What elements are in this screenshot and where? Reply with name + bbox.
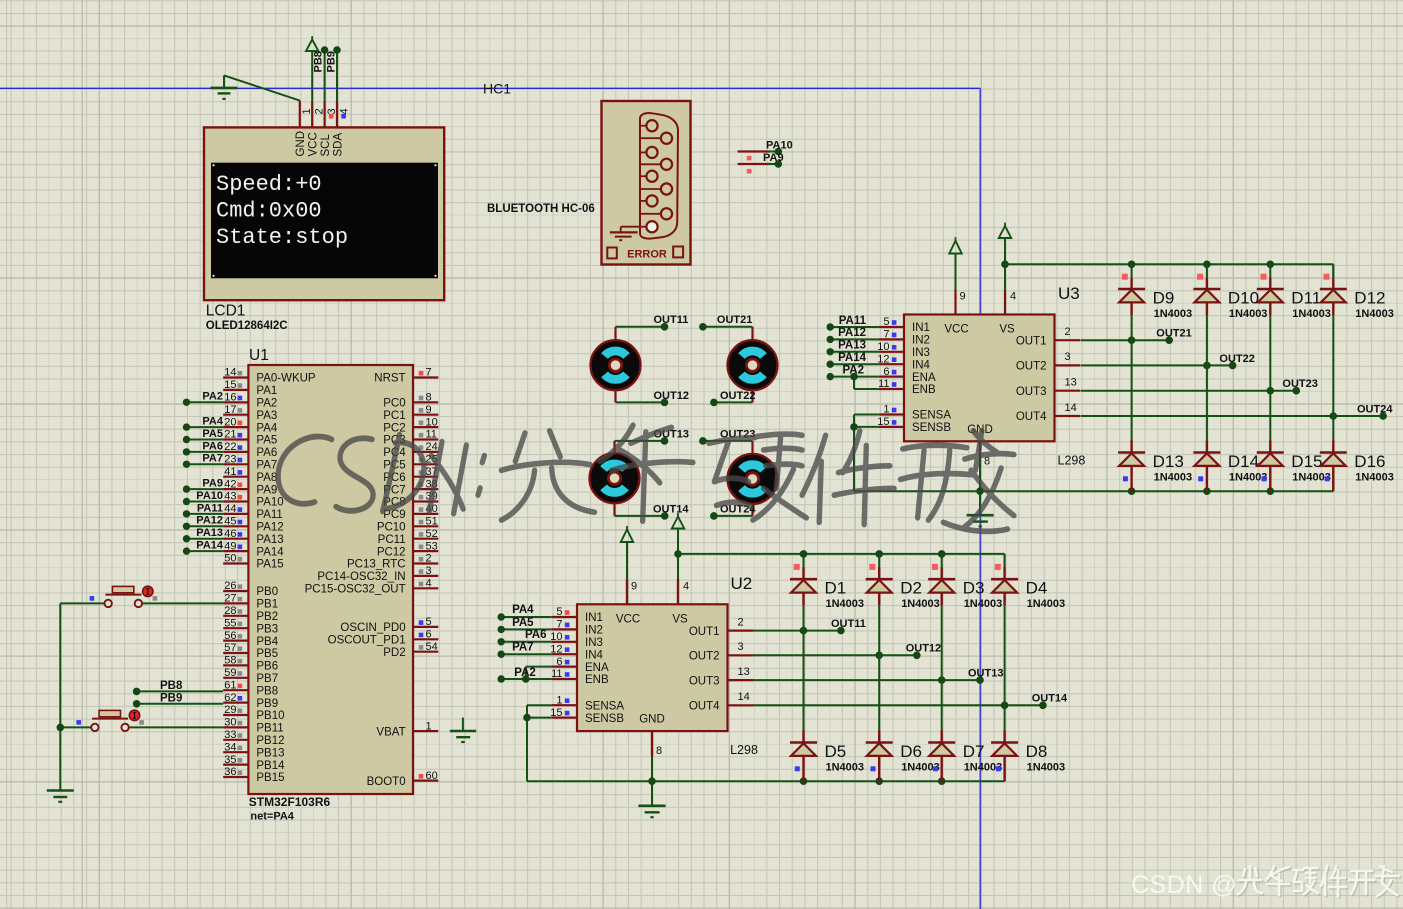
svg-text:D8: D8 — [1026, 742, 1048, 761]
node OUT21 dot (motor side) — [699, 323, 707, 331]
diode D15 — [1257, 440, 1284, 491]
label D1 — [825, 579, 847, 598]
svg-text:1N4003: 1N4003 — [1027, 598, 1066, 610]
svg-text:D11: D11 — [1291, 289, 1321, 308]
svg-text:PA12: PA12 — [838, 327, 866, 339]
wire diode column D3/D7 — [941, 554, 943, 730]
value label 1N4003 (D6) — [901, 762, 940, 774]
label net=PA4 — [250, 811, 294, 823]
svg-text:PB0: PB0 — [256, 586, 278, 598]
svg-text:3: 3 — [426, 565, 432, 577]
U1 pin 16 (PA2) — [223, 392, 277, 410]
value label 1N4003 (D2) — [901, 598, 940, 610]
svg-text:57: 57 — [224, 642, 236, 654]
wire SENSB down to GND rail (U2) — [527, 718, 552, 782]
label D9 — [1153, 289, 1175, 308]
svg-text:PC11: PC11 — [378, 534, 406, 546]
label LCD1 — [206, 303, 246, 320]
label PA6 (U2) — [525, 629, 547, 641]
svg-text:20: 20 — [224, 416, 236, 428]
LCD1 pin names GND VCC SCL SDA (vertical) — [295, 131, 344, 157]
svg-text:OUT2: OUT2 — [1016, 361, 1047, 373]
label OUT22 (diode side) — [1219, 353, 1254, 365]
svg-text:2: 2 — [314, 108, 326, 114]
U1 pin 25 (PC5) — [383, 454, 438, 472]
svg-text:D16: D16 — [1354, 452, 1385, 471]
svg-text:10: 10 — [426, 416, 438, 428]
svg-text:D2: D2 — [900, 579, 922, 598]
power symbol +V (U2 VCC) — [621, 526, 633, 579]
svg-text:59: 59 — [224, 667, 236, 679]
svg-text:PA2: PA2 — [256, 398, 277, 410]
svg-text:OSCIN_PD0: OSCIN_PD0 — [340, 622, 405, 634]
node junction OUT13/diode column — [938, 676, 946, 684]
svg-text:1N4003: 1N4003 — [1154, 472, 1193, 484]
U3 pin 13 (OUT3) — [1016, 377, 1080, 398]
pin state square (button1 left, blue) — [90, 596, 95, 601]
U1 pin 36 (PB15) — [223, 766, 284, 784]
svg-text:52: 52 — [426, 528, 438, 540]
svg-text:41: 41 — [224, 466, 236, 478]
svg-text:D6: D6 — [900, 742, 922, 761]
node junction rail/D column x=1270.3 — [1267, 261, 1275, 269]
U3 pin 11 (ENB) — [878, 378, 936, 396]
U1 pin 26 (PB0) — [223, 580, 278, 598]
U2 pin 15 (SENSB) — [550, 707, 624, 725]
node PA5 dot (U2) — [498, 626, 505, 633]
node OUT22 dot (motor side) — [710, 399, 718, 407]
label PA10 — [766, 140, 793, 152]
U1 pin 40 (PC9) — [383, 503, 438, 521]
label D3 — [963, 579, 985, 598]
diode D12 — [1320, 278, 1347, 316]
label PA12 (U3) — [838, 327, 866, 339]
value label 1N4003 (D11) — [1292, 308, 1331, 320]
label PA6 — [202, 440, 223, 452]
U2 body (L298) — [577, 604, 728, 731]
U1 pin 54 (PD2) — [383, 641, 438, 659]
motor M2 — [728, 340, 778, 390]
wire PA6 (U2) — [501, 641, 552, 643]
svg-text:D10: D10 — [1228, 289, 1259, 308]
pin state square (D2) — [869, 564, 875, 570]
svg-text:PA2: PA2 — [842, 364, 864, 376]
node junction SENSB (U2) — [523, 714, 531, 722]
wire OUT24 (U3 to terminal) — [1081, 415, 1383, 417]
U1 pin 6 (OSCOUT_PD1) — [328, 629, 439, 647]
U3 pin 8 (GND) — [967, 424, 993, 468]
U1 pin 62 (PB9) — [223, 692, 278, 710]
node PA6 dot (U2) — [498, 638, 505, 645]
wire PA7 (U2) — [501, 653, 552, 655]
svg-text:PA14: PA14 — [838, 352, 867, 364]
U1 pin 55 (PB3) — [223, 617, 278, 635]
node PA2 dot (U3) — [827, 373, 834, 380]
diode D7 — [928, 730, 955, 781]
U2 pin 3 (OUT2) — [689, 641, 753, 662]
svg-text:VS: VS — [672, 613, 688, 625]
U1 pin 22 (PA6) — [223, 441, 277, 459]
node junction gnd rail/D column x=1270.3 — [1267, 487, 1275, 495]
node OUT24 dot (motor side) — [710, 512, 718, 520]
svg-text:L298: L298 — [730, 743, 758, 757]
wire PA5 (U1 left) — [187, 439, 224, 441]
sheet border (blue) horizontal — [0, 87, 980, 89]
watermark (bottom right, CSDN @) — [1131, 866, 1400, 899]
label PA11 (U3) — [839, 315, 867, 327]
svg-text:PA5: PA5 — [512, 617, 534, 629]
node PA7 dot (U2) — [498, 651, 505, 658]
node PB8 dot — [133, 688, 141, 696]
svg-text:U3: U3 — [1058, 284, 1080, 303]
svg-text:PC13_RTC: PC13_RTC — [347, 559, 406, 571]
svg-text:PA7: PA7 — [256, 460, 277, 472]
svg-text:PC15-OSC32_OUT: PC15-OSC32_OUT — [305, 584, 406, 596]
LCD1 pin stubs 1-4 — [300, 101, 337, 128]
svg-text:NRST: NRST — [374, 373, 405, 385]
U3 pin 2 (OUT1) — [1016, 326, 1080, 347]
U1 pin 37 (PC6) — [383, 466, 438, 484]
wire OUT22 (motor2 bottom) — [714, 390, 753, 402]
svg-text:1N4003: 1N4003 — [826, 762, 865, 774]
svg-text:OUT23: OUT23 — [1282, 378, 1317, 390]
wire PA2 branch to ENA (U2) — [526, 667, 552, 679]
label PA9 — [763, 152, 784, 164]
svg-text:1N4003: 1N4003 — [964, 598, 1003, 610]
wire OUT13 (U2 to terminal) — [753, 679, 980, 681]
diode D5 — [790, 730, 817, 781]
wire OUT23 (U3 to terminal) — [1081, 390, 1297, 392]
svg-text:PB1: PB1 — [256, 599, 278, 611]
diode D1 — [790, 567, 817, 606]
U3 pin 9 (VCC) — [944, 289, 968, 335]
svg-text:OUT3: OUT3 — [1016, 386, 1047, 398]
LCD1 pin numbers 1 2 3 4 — [301, 108, 350, 114]
svg-text:58: 58 — [224, 655, 236, 667]
svg-text:23: 23 — [224, 454, 236, 466]
svg-text:OUT11: OUT11 — [831, 618, 866, 630]
label D6 — [900, 742, 922, 761]
U2 pin 1 (SENSA) — [552, 694, 625, 712]
power symbol +V on LCD VCC pin — [306, 36, 318, 101]
U1 pin 15 (PA1) — [223, 379, 277, 397]
pin state square (D5) — [795, 766, 800, 771]
HC-06 indicator square left — [607, 248, 617, 259]
svg-text:L298: L298 — [1058, 454, 1086, 468]
label D8 — [1026, 742, 1048, 761]
wire VS rail (U3 to D9-D12 cathodes) — [1005, 264, 1333, 277]
svg-text:D13: D13 — [1153, 452, 1184, 471]
node PA12 dot (U3) — [827, 336, 834, 343]
svg-text:PB2: PB2 — [256, 611, 278, 623]
pin state square (D11) — [1261, 274, 1267, 280]
U1 pin 9 (PC1) — [383, 404, 438, 422]
diode D4 — [991, 567, 1018, 606]
value label L298 (U2) — [730, 743, 758, 757]
U1 pin 33 (PB12) — [223, 729, 284, 747]
svg-text:16: 16 — [224, 392, 236, 404]
svg-text:PB5: PB5 — [256, 648, 278, 660]
U1 pin 4 (PC15-OSC32_OUT) — [305, 578, 439, 596]
svg-text:IN2: IN2 — [585, 625, 603, 637]
U1 pin 46 (PA13) — [223, 528, 283, 546]
node junction U3 GND / rail — [976, 487, 984, 495]
svg-text:PA12: PA12 — [196, 515, 223, 527]
svg-text:SCL: SCL — [320, 134, 332, 157]
svg-text:SDA: SDA — [332, 133, 344, 157]
svg-text:D3: D3 — [963, 579, 985, 598]
svg-text:PA9: PA9 — [763, 152, 784, 164]
U1 pin 3 (PC14-OSC32_IN) — [317, 565, 438, 583]
svg-text:13: 13 — [1065, 377, 1077, 389]
svg-text:PB7: PB7 — [256, 673, 278, 685]
wire diode column D10/D14 — [1206, 264, 1208, 440]
wire OUT23 (motor4 top) — [703, 441, 753, 454]
svg-text:PA7: PA7 — [202, 453, 223, 465]
svg-text:15: 15 — [550, 707, 562, 719]
label OUT12 (diode side) — [906, 643, 941, 655]
node junction OUT14/diode column — [1001, 702, 1009, 710]
svg-text:45: 45 — [224, 516, 236, 528]
label PA12 — [196, 515, 223, 527]
U1 pin 7 (NRST) — [374, 367, 438, 385]
value label 1N4003 (D4) — [1027, 598, 1066, 610]
wire PA13 (U1 left) — [187, 538, 224, 540]
U3 pin 10 (IN3) — [877, 341, 930, 359]
pin state square (button2 right, gray) — [139, 720, 144, 725]
svg-text:PA11: PA11 — [197, 502, 223, 514]
svg-text:11: 11 — [878, 378, 889, 390]
svg-text:ENA: ENA — [912, 372, 936, 384]
pin state square (D13) — [1123, 476, 1128, 481]
svg-text:15: 15 — [224, 379, 236, 391]
svg-text:PB9: PB9 — [160, 693, 182, 705]
label PA2 (U3) — [842, 364, 864, 376]
diode D9 — [1118, 278, 1145, 316]
U1 pin 1 (VBAT) — [376, 720, 438, 738]
svg-text:OUT4: OUT4 — [689, 701, 720, 713]
U2 pin 6 (ENA) — [552, 656, 609, 674]
wire PA11 (U1 left) — [187, 513, 224, 515]
pin state square (button2 left, blue) — [76, 720, 81, 725]
svg-text:Speed:+0: Speed:+0 — [216, 172, 322, 197]
svg-text:PA13: PA13 — [256, 534, 283, 546]
label PA2 (U2) — [514, 667, 536, 679]
wire PB8 (LCD SCL) — [324, 50, 326, 101]
svg-text:8: 8 — [656, 745, 662, 757]
wire diode column D1/D5 — [803, 554, 805, 730]
wire PA2 branch to ENB (U3) — [854, 377, 879, 389]
label D10 — [1228, 289, 1259, 308]
label PA14 — [196, 540, 224, 552]
svg-text:IN3: IN3 — [585, 637, 603, 649]
svg-text:1N4003: 1N4003 — [1154, 308, 1193, 320]
pin state square (SCL, red) — [329, 114, 334, 119]
wire GND rail (bottom, U2 bank) — [527, 756, 1005, 781]
U3 pin 12 (IN4) — [877, 353, 930, 371]
pin state square (button1 right, gray) — [153, 596, 158, 601]
svg-text:7: 7 — [556, 619, 562, 631]
svg-text:5: 5 — [426, 616, 432, 628]
svg-text:D1: D1 — [825, 579, 847, 598]
node PA9 dot — [775, 160, 783, 168]
svg-text:D7: D7 — [963, 742, 985, 761]
svg-text:SENSA: SENSA — [912, 410, 951, 422]
svg-text:PB11: PB11 — [256, 723, 283, 735]
U1 pin 30 (PB11) — [223, 717, 283, 735]
wire PA6 (U1 left) — [187, 451, 224, 453]
node junction U2 GND / rail — [648, 777, 656, 785]
svg-text:PA10: PA10 — [256, 497, 283, 509]
svg-text:12: 12 — [550, 643, 562, 655]
svg-text:LCD1: LCD1 — [206, 303, 246, 320]
svg-text:21: 21 — [224, 429, 236, 441]
svg-text:D9: D9 — [1153, 289, 1175, 308]
U1 pin 2 (PC13_RTC) — [347, 553, 438, 571]
wire PA10 (U1 left) — [187, 501, 224, 503]
U1 pin 45 (PA12) — [223, 516, 283, 534]
svg-text:PA5: PA5 — [256, 435, 277, 447]
svg-text:U1: U1 — [249, 347, 269, 364]
svg-text:1N4003: 1N4003 — [1229, 308, 1268, 320]
node OUT12 terminal dot — [913, 652, 921, 660]
value label 1N4003 (D3) — [964, 598, 1003, 610]
svg-text:SENSB: SENSB — [585, 713, 624, 725]
svg-text:55: 55 — [224, 617, 236, 629]
svg-text:OUT24: OUT24 — [1357, 403, 1393, 415]
node junction rail/D column x=879.2 — [875, 550, 883, 558]
label PA10 — [196, 490, 223, 502]
wire PA14 (U1 left) — [187, 550, 224, 552]
svg-text:13: 13 — [738, 666, 750, 678]
value label 1N4003 (D10) — [1229, 308, 1268, 320]
label PA5 — [202, 428, 223, 440]
svg-text:34: 34 — [224, 741, 236, 753]
svg-text:14: 14 — [738, 691, 750, 703]
svg-text:GND: GND — [295, 131, 307, 157]
U1 pin 34 (PB13) — [223, 741, 284, 759]
wire diode column D4/D8 — [1004, 554, 1006, 730]
svg-text:4: 4 — [338, 108, 350, 114]
node junction gnd rail/D column x=879.2 — [875, 777, 883, 785]
node OUT13 dot (motor side) — [661, 437, 669, 445]
U2 pin 5 (IN1) — [552, 606, 603, 624]
diode D11 — [1257, 278, 1284, 316]
node PA6 dot — [183, 448, 190, 455]
wire diode column D12/D16 — [1332, 264, 1334, 440]
DB9 pin 5 circle (white) — [646, 221, 657, 232]
node OUT21 terminal dot — [1165, 336, 1173, 344]
svg-text:42: 42 — [224, 478, 236, 490]
U1 pin 35 (PB14) — [223, 754, 285, 772]
svg-text:9: 9 — [960, 291, 966, 303]
wire (button 1 left) — [60, 602, 104, 604]
svg-text:PA1: PA1 — [256, 385, 277, 397]
wire PA14 (U3) — [830, 363, 879, 365]
svg-text:15: 15 — [877, 416, 889, 428]
svg-text:OUT21: OUT21 — [717, 314, 752, 326]
label PA2 — [202, 391, 223, 403]
svg-text:D4: D4 — [1026, 579, 1048, 598]
U1 pin 5 (OSCIN_PD0) — [340, 616, 438, 634]
label PA4 (U2) — [512, 604, 534, 616]
wire PA9 terminal — [738, 163, 779, 165]
node junction VS rail (U3) — [1001, 261, 1009, 269]
svg-text:2: 2 — [738, 616, 744, 628]
svg-text:5: 5 — [556, 606, 562, 618]
svg-text:PB8: PB8 — [256, 685, 278, 697]
node OUT13 terminal dot — [976, 676, 984, 684]
U3 pin 1 (SENSA) — [879, 404, 952, 422]
node PA11 dot (U3) — [827, 323, 834, 330]
label PA13 — [196, 527, 223, 539]
ground (LCD GND pin) — [211, 75, 238, 99]
node OUT23 terminal dot — [1293, 387, 1301, 395]
node junction PA2/ENB (U3) — [850, 373, 858, 381]
svg-text:PA10: PA10 — [196, 490, 223, 502]
node OUT24 terminal dot — [1379, 412, 1387, 420]
svg-text:PB10: PB10 — [256, 710, 284, 722]
svg-text:PA6: PA6 — [256, 447, 277, 459]
U3 pin 15 (SENSB) — [877, 416, 951, 434]
label PA11 — [197, 502, 223, 514]
push button (bottom, to PB11) — [91, 710, 139, 731]
ground (VBAT) — [450, 718, 476, 742]
svg-text:PB8: PB8 — [160, 680, 183, 692]
node junction rail/D column x=1206.9 — [1203, 261, 1211, 269]
svg-text:IN2: IN2 — [912, 335, 930, 347]
node PA14 dot (U3) — [827, 361, 834, 368]
node PA4 dot (U2) — [498, 613, 505, 620]
svg-text:PC2: PC2 — [383, 422, 405, 434]
svg-text:GND: GND — [639, 714, 665, 726]
label PA5 (U2) — [512, 617, 534, 629]
svg-text:PC6: PC6 — [383, 472, 405, 484]
svg-text:12: 12 — [877, 353, 889, 365]
value label 1N4003 (D14) — [1229, 472, 1268, 484]
wire U2 VS stub ext — [677, 579, 679, 604]
svg-text:24: 24 — [426, 441, 438, 453]
U1 pin 58 (PB6) — [223, 655, 278, 673]
svg-text:Cmd:0x00: Cmd:0x00 — [216, 199, 322, 224]
wire SENSA to SENSB (U3) — [854, 415, 879, 427]
U1 pin 27 (PB1) — [223, 593, 278, 611]
value label 1N4003 (D5) — [826, 762, 865, 774]
U1 pin 59 (PB7) — [223, 667, 278, 685]
svg-text:PA2: PA2 — [514, 667, 536, 679]
wire VS rail (U2 to D1-D4 cathodes) — [678, 554, 1005, 567]
label OUT13 (diode side) — [968, 668, 1003, 680]
svg-text:6: 6 — [426, 629, 432, 641]
svg-text:ENB: ENB — [912, 384, 936, 396]
node PA2 dot — [183, 399, 190, 406]
svg-text:35: 35 — [224, 754, 236, 766]
svg-text:28: 28 — [224, 605, 236, 617]
node junction rail/D column x=803.5 — [800, 550, 808, 558]
svg-text:CSDN @: CSDN @ — [1131, 871, 1237, 899]
ground (U3) — [967, 515, 994, 526]
svg-text:26: 26 — [224, 580, 236, 592]
svg-text:OUT13: OUT13 — [968, 668, 1003, 680]
power symbol +V (U3 VS) — [999, 223, 1011, 290]
pin state square (D3) — [932, 564, 938, 570]
svg-text:OUT12: OUT12 — [654, 390, 689, 402]
motor M3 — [590, 453, 640, 503]
svg-text:PA13: PA13 — [838, 340, 866, 352]
U1 pin 14 (PA0) — [223, 367, 316, 385]
pin state square (D4) — [995, 564, 1001, 570]
svg-text:SENSA: SENSA — [585, 700, 624, 712]
